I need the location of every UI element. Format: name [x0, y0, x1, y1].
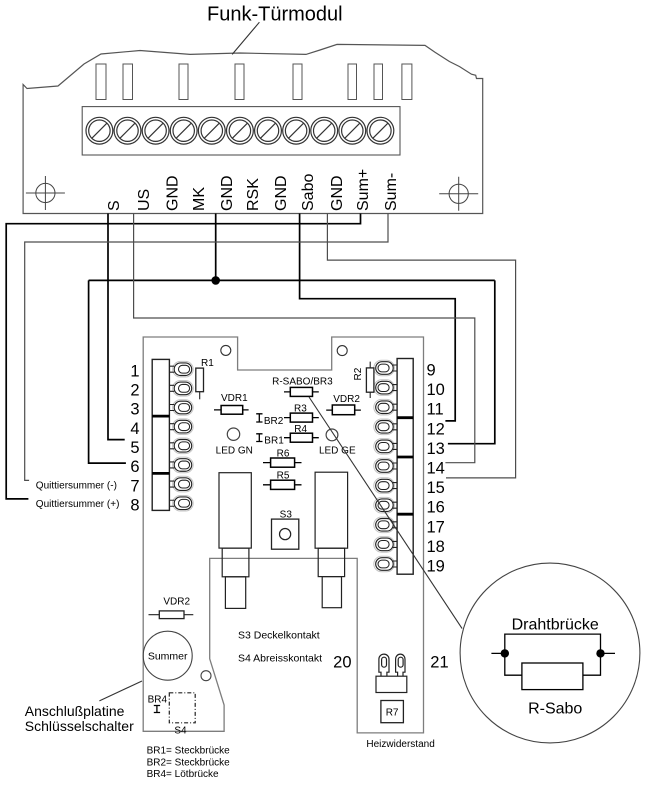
svg-text:4: 4 — [130, 420, 139, 438]
svg-text:MK: MK — [191, 187, 208, 211]
svg-text:2: 2 — [130, 382, 139, 400]
svg-text:16: 16 — [427, 499, 445, 517]
svg-text:20: 20 — [333, 654, 351, 672]
svg-text:RSK: RSK — [245, 178, 262, 211]
svg-text:Anschlußplatine: Anschlußplatine — [25, 703, 125, 719]
svg-text:Funk-Türmodul: Funk-Türmodul — [207, 4, 343, 26]
svg-text:R7: R7 — [386, 708, 399, 719]
svg-text:BR1= Steckbrücke: BR1= Steckbrücke — [147, 746, 231, 757]
svg-text:VDR2: VDR2 — [333, 394, 360, 405]
svg-text:Schlüsselschalter: Schlüsselschalter — [25, 718, 134, 734]
svg-text:14: 14 — [427, 460, 445, 478]
svg-text:BR2: BR2 — [264, 416, 284, 427]
svg-text:R-SABO/BR3: R-SABO/BR3 — [272, 376, 333, 387]
svg-text:VDR2: VDR2 — [163, 597, 190, 608]
svg-text:5: 5 — [130, 439, 139, 457]
svg-text:R1: R1 — [201, 358, 214, 369]
svg-text:R2: R2 — [353, 367, 364, 380]
svg-text:11: 11 — [427, 401, 444, 419]
svg-text:Sabo: Sabo — [300, 174, 317, 211]
svg-text:VDR1: VDR1 — [221, 393, 248, 404]
svg-text:BR2= Steckbrücke: BR2= Steckbrücke — [147, 757, 231, 768]
svg-text:9: 9 — [427, 362, 436, 380]
svg-text:Drahtbrücke: Drahtbrücke — [512, 617, 599, 634]
svg-text:S: S — [106, 200, 123, 211]
svg-text:Quittiersummer (+): Quittiersummer (+) — [36, 499, 120, 510]
svg-text:BR4= Lötbrücke: BR4= Lötbrücke — [147, 769, 219, 780]
svg-text:10: 10 — [427, 381, 445, 399]
svg-text:GND: GND — [219, 175, 236, 211]
svg-text:S3 Deckelkontakt: S3 Deckelkontakt — [238, 630, 320, 642]
svg-text:Sum+: Sum+ — [355, 169, 372, 211]
svg-text:15: 15 — [427, 479, 445, 497]
svg-text:17: 17 — [427, 518, 445, 536]
svg-text:Quittiersummer (-): Quittiersummer (-) — [36, 481, 117, 492]
svg-text:S4 Abreisskontakt: S4 Abreisskontakt — [238, 653, 322, 665]
svg-text:Sum-: Sum- — [383, 173, 400, 211]
svg-text:7: 7 — [130, 477, 139, 495]
svg-text:LED GE: LED GE — [319, 445, 356, 456]
svg-text:GND: GND — [329, 175, 346, 211]
svg-text:18: 18 — [427, 538, 445, 556]
svg-text:GND: GND — [273, 175, 290, 211]
svg-text:1: 1 — [130, 362, 139, 380]
svg-text:S4: S4 — [174, 726, 187, 737]
svg-text:6: 6 — [130, 458, 139, 476]
svg-text:BR4: BR4 — [148, 695, 168, 706]
svg-text:3: 3 — [130, 401, 139, 419]
svg-text:8: 8 — [130, 496, 139, 514]
svg-text:12: 12 — [427, 420, 445, 438]
svg-text:Heizwiderstand: Heizwiderstand — [366, 739, 434, 750]
svg-text:LED GN: LED GN — [216, 446, 253, 457]
svg-text:GND: GND — [164, 175, 181, 211]
svg-text:13: 13 — [427, 440, 445, 458]
svg-text:21: 21 — [430, 654, 448, 672]
svg-text:US: US — [136, 189, 153, 211]
svg-text:Summer: Summer — [148, 651, 188, 663]
svg-text:BR1: BR1 — [264, 435, 284, 446]
svg-text:R-Sabo: R-Sabo — [528, 701, 582, 718]
svg-text:19: 19 — [427, 558, 445, 576]
